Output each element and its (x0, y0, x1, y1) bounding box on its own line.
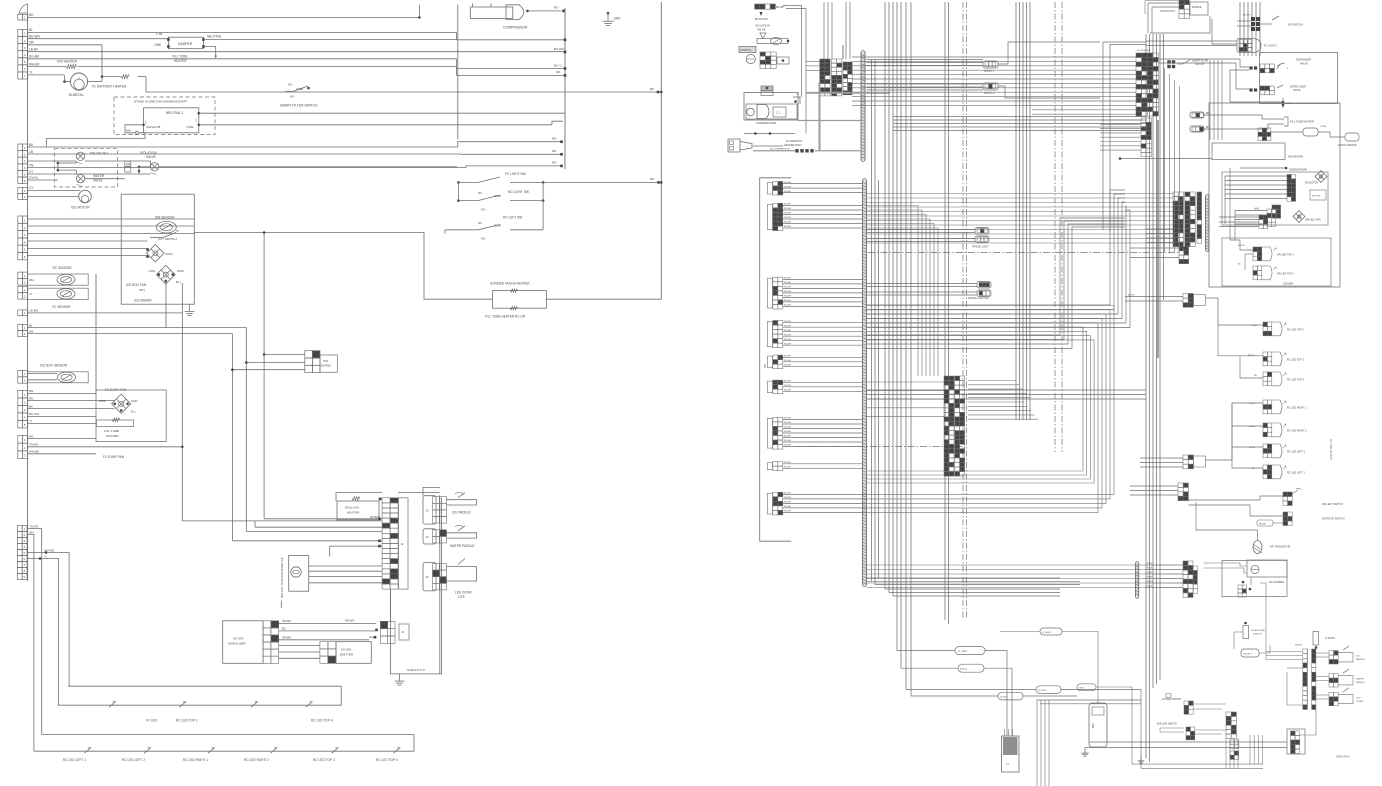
connector bank J3 (1136, 50, 1158, 157)
svg-text:TORS: TORS (1320, 126, 1327, 128)
svg-text:YL: YL (29, 419, 33, 423)
svg-text:BK: BK (29, 404, 33, 408)
svg-text:FC_MAST: FC_MAST (958, 650, 968, 653)
wire damper drop (203, 47, 217, 59)
svg-text:NC LIGHT SW: NC LIGHT SW (508, 190, 529, 194)
svg-text:MOLSON STAINLESS WIRED ICE: MOLSON STAINLESS WIRED ICE (280, 557, 284, 598)
connector midC (1140, 403, 1232, 469)
valve water (57, 169, 105, 187)
svg-text:DM: DM (126, 129, 131, 133)
connector stealth R (1287, 710, 1350, 759)
wire dashdot row (795, 445, 962, 447)
svg-text:RD-WH: RD-WH (784, 191, 791, 193)
svg-text:RD-WH: RD-WH (784, 440, 791, 442)
wire nest1 (897, 647, 1007, 737)
svg-text:FC EVAP FAN: FC EVAP FAN (103, 455, 125, 459)
svg-text:SMART FILTER SWITCH: SMART FILTER SWITCH (280, 104, 318, 108)
connector pedal top (1145, 0, 1208, 33)
wire valve row (28, 160, 77, 162)
svg-text:BU-YL: BU-YL (554, 63, 563, 67)
svg-text:BL-+: BL-+ (176, 281, 182, 284)
svg-text:RD-WH: RD-WH (784, 343, 791, 345)
svg-text:DM: DM (126, 162, 130, 166)
heater fill tube R (1204, 115, 1359, 147)
wire wired ice rows (309, 566, 382, 583)
connector LC8 (768, 462, 783, 471)
wire bankJ3 left rows (1032, 110, 1136, 114)
connector olp (761, 86, 773, 96)
sensor ice box (28, 363, 89, 382)
label defrost R (753, 139, 803, 147)
wire uvion vert (280, 601, 282, 609)
svg-text:VALVE: VALVE (757, 28, 766, 32)
wire fc light loop (1150, 16, 1237, 44)
wire right col wires (1266, 597, 1303, 705)
connector CN10 (18, 370, 28, 383)
svg-text:BN: BN (30, 530, 34, 534)
resistor DW heater (57, 60, 78, 69)
connector bank J1 (820, 59, 852, 96)
svg-text:FILL TUBE: FILL TUBE (104, 429, 119, 433)
label MM (764, 364, 767, 368)
svg-text:BU-RD: BU-RD (1147, 581, 1154, 583)
svg-text:RELAY: RELAY (1259, 523, 1267, 526)
svg-text:RD-WH: RD-WH (784, 287, 791, 289)
connector CN1 (18, 14, 28, 20)
svg-text:NO: NO (290, 95, 295, 99)
svg-text:DL+: DL+ (131, 410, 136, 414)
connector CN13 (17, 526, 27, 580)
connector CN4 (18, 187, 28, 199)
led RC left1 (1232, 447, 1306, 479)
heater fascia (485, 281, 661, 318)
svg-text:NC: NC (478, 221, 482, 225)
wire OR drop (101, 45, 104, 78)
svg-text:RC DAMPER: RC DAMPER (1269, 581, 1284, 584)
box dispenser (1260, 53, 1338, 104)
connector fridge light 1 (972, 228, 989, 249)
wire valve links (58, 161, 457, 179)
switch ice press (1329, 646, 1365, 664)
wire BU-WH (28, 35, 169, 39)
wire UIcol feeds (1316, 653, 1329, 699)
svg-text:SWITCH: SWITCH (1253, 634, 1262, 636)
wire comp verticals (783, 6, 890, 151)
svg-text:BK-WH: BK-WH (776, 6, 785, 9)
wire GY/YL (28, 176, 58, 180)
svg-text:STEALTH UI: STEALTH UI (407, 668, 425, 672)
svg-text:RD-WH: RD-WH (784, 300, 791, 302)
svg-text:BU-WH: BU-WH (29, 35, 40, 39)
svg-text:DW VALVE 1: DW VALVE 1 (90, 152, 109, 156)
wire LB-BK (28, 48, 565, 52)
svg-text:HEATER ASSY: HEATER ASSY (784, 143, 802, 147)
wire bankJ3 low rows (1100, 120, 1141, 150)
relay1 box (1241, 645, 1270, 657)
svg-text:RC LED LEFT 2: RC LED LEFT 2 (1287, 451, 1306, 454)
svg-text:ICEMAKER BAR: ICEMAKER BAR (1289, 169, 1307, 172)
wire loops low (867, 327, 1095, 483)
svg-text:RC SENSOR: RC SENSOR (53, 266, 73, 270)
wire comb verts (1138, 735, 1263, 768)
svg-text:DR MOTOR: DR MOTOR (1305, 182, 1318, 185)
svg-text:BU: BU (282, 627, 286, 631)
connector comb mid (1226, 712, 1239, 759)
sensor DW (155, 216, 176, 233)
connector PNL (305, 351, 338, 373)
wire vert182 (181, 313, 184, 521)
svg-text:BUS_A: BUS_A (960, 668, 967, 671)
wire neutral1 run (199, 112, 565, 114)
svg-text:TN-RD: TN-RD (29, 443, 39, 447)
corner arc (19, 4, 28, 13)
svg-text:BU: BU (650, 177, 654, 181)
svg-text:RD-WH: RD-WH (784, 360, 791, 362)
wire row327 (28, 323, 247, 531)
sensor FC (28, 288, 89, 309)
connector CN5 (18, 216, 28, 260)
svg-text:RD-WH: RD-WH (784, 511, 791, 513)
wire DG-BK (28, 55, 457, 59)
svg-text:LED DOOR: LED DOOR (455, 591, 472, 595)
svg-text:RD-WH: RD-WH (345, 619, 354, 623)
heater fill tube small (28, 412, 134, 438)
spine main2 (863, 179, 867, 587)
svg-text:BU: BU (1238, 264, 1241, 266)
wire LED bus2 (34, 735, 414, 754)
wire bank1 rows (852, 57, 1136, 105)
wire bank2 straight rows (867, 194, 1174, 244)
svg-text:BU: BU (29, 13, 34, 17)
svg-text:DW HEATER: DW HEATER (57, 60, 78, 64)
svg-text:RD-WH: RD-WH (784, 497, 791, 499)
svg-text:RD-WH: RD-WH (784, 385, 791, 387)
svg-text:BK-BU-WH: BK-BU-WH (755, 18, 768, 21)
svg-text:VALVE: VALVE (1300, 62, 1308, 66)
svg-text:LB: LB (29, 150, 33, 154)
svg-text:LINE: LINE (154, 43, 161, 47)
svg-text:RC LED LEFT 2: RC LED LEFT 2 (122, 758, 145, 762)
svg-text:LITE: LITE (458, 595, 465, 599)
svg-text:SMART FILTER: SMART FILTER (1192, 60, 1209, 63)
svg-text:J3: J3 (426, 535, 429, 539)
svg-text:RC LED RIGHT 1: RC LED RIGHT 1 (183, 758, 208, 762)
wire mullion top (336, 493, 382, 501)
wire rail661 (660, 2, 663, 299)
svg-text:DR LED TOP 2: DR LED TOP 2 (1277, 273, 1295, 276)
wire thick gray (1157, 120, 1159, 358)
wire OR (28, 41, 102, 45)
svg-text:VT: VT (29, 292, 33, 296)
box led bar (1222, 238, 1331, 286)
svg-text:FLOAT STEM: FLOAT STEM (1251, 629, 1265, 632)
svg-text:DISPENSER: DISPENSER (1296, 58, 1311, 62)
svg-text:STAND ALONE DW HARNESSCRAFT: STAND ALONE DW HARNESSCRAFT (134, 100, 188, 104)
svg-text:UI DOOR: UI DOOR (1325, 638, 1335, 640)
svg-text:MULLION SWITCH: MULLION SWITCH (1157, 724, 1177, 726)
wire vert457 (457, 5, 459, 140)
connector CN8 (18, 310, 28, 316)
wire big loop A (867, 190, 1131, 328)
fan FC evap (28, 388, 138, 414)
svg-text:ICE MOTOR: ICE MOTOR (71, 206, 90, 210)
svg-text:RC LED TOP 3: RC LED TOP 3 (1287, 359, 1305, 362)
svg-text:RD-WH: RD-WH (784, 339, 791, 341)
svg-text:NO: NO (481, 208, 486, 212)
connector J2 below (1179, 247, 1189, 264)
compressor R (744, 93, 800, 126)
svg-text:SPOUT 1: SPOUT 1 (984, 70, 995, 73)
wire BU steps (456, 32, 565, 39)
connector disp2 (1249, 85, 1306, 95)
connector LC3 (768, 277, 783, 309)
svg-text:FILL TUBE HEATER RC DR: FILL TUBE HEATER RC DR (485, 315, 526, 319)
svg-text:1 2: 1 2 (776, 111, 780, 115)
led RC top3 (1218, 325, 1305, 378)
wire main left bus (27, 13, 29, 581)
svg-text:RD-WH: RD-WH (784, 186, 791, 188)
wire disp feed (1159, 59, 1291, 108)
valve isolation R (755, 24, 789, 45)
svg-text:NC: NC (478, 191, 482, 195)
connector stealth in (345, 619, 409, 644)
svg-text:FC LIGHT 1: FC LIGHT 1 (1264, 45, 1278, 48)
svg-text:RD-WH: RD-WH (784, 330, 791, 332)
svg-text:FRIDGE LIGHT: FRIDGE LIGHT (972, 246, 989, 249)
wire row154 run (462, 149, 563, 156)
svg-text:RD-WH: RD-WH (784, 204, 791, 206)
svg-text:BU-RD: BU-RD (1147, 563, 1154, 565)
svg-text:BL: BL (29, 323, 33, 327)
wire cn13 w4 (28, 554, 59, 705)
svg-text:NEUTRAL 1: NEUTRAL 1 (166, 111, 184, 115)
ground GND top (603, 12, 622, 26)
wire centerline1 (963, 2, 967, 618)
svg-text:RD-WH: RD-WH (784, 208, 791, 210)
wire loops LC9 (867, 306, 1115, 513)
connector UI strip (382, 498, 398, 589)
wire row147 run (458, 137, 563, 148)
box evap fan (96, 390, 166, 442)
switch ice paddle (423, 492, 477, 524)
svg-text:MOTOR: MOTOR (1312, 196, 1321, 198)
wire rail565 (554, 8, 566, 169)
spine mini J2 (1206, 195, 1209, 252)
box valves (54, 149, 117, 187)
wire VT (28, 170, 151, 174)
svg-text:RD: RD (556, 70, 560, 74)
svg-text:LEVER: LEVER (1356, 701, 1364, 703)
wire DW rows (28, 219, 195, 256)
wire TN (28, 163, 466, 167)
svg-text:RC LED LEFT 1: RC LED LEFT 1 (63, 758, 86, 762)
module UV-ION modulizer (223, 621, 279, 664)
svg-text:BU-RD: BU-RD (1147, 577, 1154, 579)
wire DG-BK steps (456, 59, 565, 69)
svg-text:RD-WH: RD-WH (784, 467, 791, 469)
wire LB (28, 150, 462, 154)
wire big loop B (867, 218, 1126, 349)
wire LED bus1 (58, 686, 341, 707)
connector botB (1145, 561, 1197, 597)
svg-text:RD-WH: RD-WH (784, 334, 791, 336)
led door lite (423, 559, 477, 600)
svg-text:ICE MAKER: ICE MAKER (134, 299, 152, 303)
wire LC6 rows (783, 381, 863, 392)
svg-text:RD-WH: RD-WH (784, 436, 791, 438)
wire bundleA ends (885, 589, 1060, 596)
wire LC9 rows (783, 493, 867, 513)
svg-text:GND: GND (131, 399, 137, 403)
svg-text:VALVE: VALVE (1293, 89, 1301, 92)
wire mid bundle2 (1103, 42, 1146, 232)
svg-text:RD-WH: RD-WH (784, 291, 791, 293)
wire centerline2 (1055, 2, 1062, 452)
svg-text:F.TB: F.TB (156, 32, 162, 36)
sensor RC (28, 266, 89, 285)
svg-text:RC LED TOP 3: RC LED TOP 3 (313, 758, 335, 762)
svg-text:NO: NO (481, 237, 486, 241)
svg-text:ICE BOX FAN: ICE BOX FAN (126, 283, 147, 287)
svg-text:BN: BN (29, 389, 33, 393)
svg-text:RD-WH: RD-WH (784, 282, 791, 284)
wire WH-BK run (78, 67, 566, 76)
damper (154, 32, 222, 63)
svg-text:SPOUT 2: SPOUT 2 (984, 92, 995, 95)
svg-text:PADDLE: PADDLE (1192, 6, 1202, 9)
svg-text:FILL TUBE HEATER: FILL TUBE HEATER (1290, 120, 1314, 124)
svg-text:FC SENSOR: FC SENSOR (52, 305, 71, 309)
heater mullion (337, 497, 379, 520)
connector midB (1125, 294, 1218, 326)
switch water press (1329, 669, 1365, 687)
connector disp1 (1249, 63, 1289, 73)
wire row453 (28, 450, 96, 454)
svg-text:J3: J3 (426, 575, 429, 579)
box left column (760, 178, 792, 541)
connector CN11 (18, 390, 28, 428)
box wired ice (280, 556, 309, 599)
svg-text:BOARDS: BOARDS (321, 365, 332, 368)
wire bank2 down (0, 0, 1, 1)
wire LC5 rows (783, 356, 863, 367)
svg-text:LINE: LINE (187, 125, 194, 129)
motor ice (28, 186, 92, 209)
svg-text:RC LED TOP 4: RC LED TOP 4 (311, 719, 333, 723)
motor DCM (146, 244, 173, 262)
svg-text:OR-BN: OR-BN (282, 636, 291, 640)
svg-text:PADDLE: PADDLE (1356, 658, 1365, 661)
connector botA (1130, 483, 1188, 501)
svg-text:LED BAR: LED BAR (1283, 283, 1294, 286)
damper RC (1204, 560, 1288, 597)
wire fl rows (867, 230, 978, 296)
svg-text:WH-BK: WH-BK (29, 450, 39, 454)
svg-text:UI_BUS: UI_BUS (1000, 697, 1008, 699)
compressor (470, 4, 565, 30)
svg-text:PADDLE: PADDLE (1356, 681, 1365, 684)
svg-text:WATER: WATER (1356, 678, 1364, 681)
svg-text:RC LED LEFT 1: RC LED LEFT 1 (1287, 472, 1306, 475)
switch RC left (445, 201, 543, 241)
svg-text:UV-ION: UV-ION (341, 648, 351, 652)
svg-text:RC LED TOP 4: RC LED TOP 4 (376, 758, 398, 762)
svg-text:OR-BN: OR-BN (282, 619, 291, 623)
svg-text:RD-WH: RD-WH (784, 390, 791, 392)
svg-text:DR HEATER: DR HEATER (1288, 155, 1303, 159)
wire dashdot row2 (868, 252, 1179, 254)
svg-text:WH-BK: WH-BK (29, 62, 40, 66)
wire cn13 w2 (28, 530, 34, 751)
spine mini botB (1136, 562, 1139, 599)
connector CN7 (18, 286, 28, 299)
connector CN6 (18, 272, 28, 285)
wire LC1 rows (783, 182, 863, 193)
label rc led bar (1330, 439, 1333, 460)
connector spout2 (983, 83, 998, 95)
svg-text:BU-WH: BU-WH (554, 47, 564, 51)
svg-text:RD: RD (554, 6, 559, 10)
wire YL (28, 71, 64, 75)
svg-text:ICE BOX SENSOR: ICE BOX SENSOR (40, 363, 68, 367)
wire sensor verts (96, 274, 182, 394)
svg-text:COMPRESSOR: COMPRESSOR (756, 121, 776, 125)
svg-text:FF DR BLSW: FF DR BLSW (1137, 50, 1151, 52)
svg-text:RD-WH: RD-WH (784, 222, 791, 224)
svg-text:RC LED TOP 2: RC LED TOP 2 (1287, 329, 1305, 332)
svg-text:RD-WH: RD-WH (784, 365, 791, 367)
wire LC4 rows (783, 321, 863, 346)
svg-text:RC LED RIGHT 2: RC LED RIGHT 2 (1287, 407, 1307, 410)
svg-text:BU-RD: BU-RD (1147, 586, 1154, 588)
switch ACT (148, 231, 180, 241)
switch water paddle (423, 525, 477, 548)
svg-text:BU-WH: BU-WH (29, 412, 39, 416)
svg-text:HEATER: HEATER (106, 434, 119, 438)
led DR top1 (1230, 240, 1295, 270)
svg-text:RD-WH: RD-WH (784, 462, 791, 464)
svg-text:SCREWS FASCIA HEATER: SCREWS FASCIA HEATER (490, 281, 530, 285)
connector fridge light 2 (968, 282, 991, 300)
svg-text:(DR) BLU FAN: (DR) BLU FAN (1305, 219, 1321, 222)
box DW unit (121, 194, 194, 304)
svg-text:DR TRANSISTOR: DR TRANSISTOR (1270, 546, 1291, 549)
wire row333 (28, 329, 233, 541)
label ui sensor (1000, 628, 1098, 703)
connector LC7 (768, 417, 783, 449)
wire BL (28, 28, 457, 32)
connector LC2 (768, 203, 783, 230)
wire box out (194, 233, 492, 300)
svg-text:VT: VT (29, 170, 33, 174)
svg-text:SWITCH: SWITCH (1195, 64, 1204, 66)
connector spout1 (983, 61, 998, 73)
wire valveFB drop (46, 125, 145, 147)
svg-text:(LED) RC BAR LTG: (LED) RC BAR LTG (1330, 439, 1333, 460)
connector LC1 (768, 181, 783, 195)
svg-text:RD-WH: RD-WH (784, 226, 791, 228)
connector wall plug (728, 139, 752, 152)
switch NC light (457, 182, 544, 211)
box UI strip frame (399, 498, 409, 589)
ui door (1295, 632, 1335, 651)
svg-text:YL: YL (29, 71, 33, 75)
label mullion switch (1157, 724, 1226, 740)
label FC evap fan2 (103, 455, 125, 459)
wire WH-BK (28, 62, 66, 66)
svg-text:GND: GND (614, 17, 622, 21)
connector bank J2 (1173, 192, 1202, 247)
